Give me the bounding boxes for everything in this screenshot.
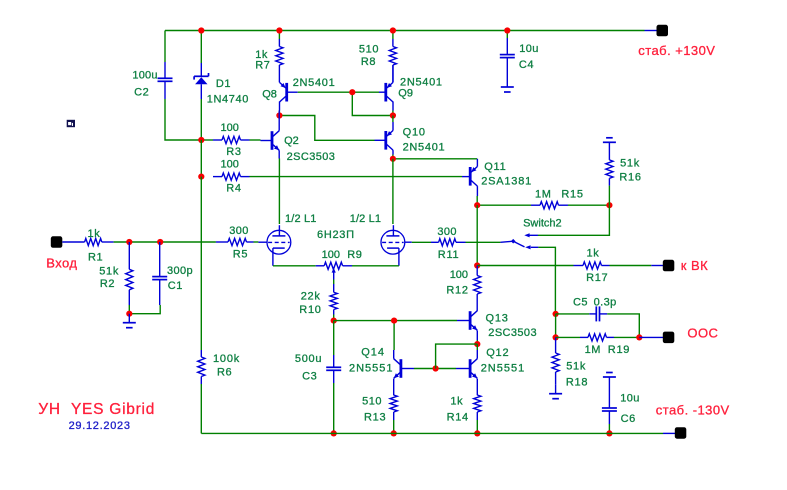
wire R17 right xyxy=(610,265,652,267)
svg-text:Q9: Q9 xyxy=(398,88,413,100)
svg-text:510: 510 xyxy=(362,396,382,408)
wire left vertical xyxy=(200,177,202,350)
label Q14 ref xyxy=(361,347,385,359)
wire Q10 collector to node xyxy=(392,116,394,123)
svg-text:Q10: Q10 xyxy=(403,126,426,138)
resistor R9 xyxy=(316,262,352,269)
label tube V1a xyxy=(285,213,316,225)
svg-text:C6: C6 xyxy=(621,413,636,425)
transistor Q10 xyxy=(386,122,393,155)
wire R6 to bottom rail xyxy=(200,384,202,433)
resistor R10 xyxy=(330,284,337,315)
svg-text:C5: C5 xyxy=(573,296,588,308)
svg-text:100k: 100k xyxy=(213,353,240,365)
capacitor C5 xyxy=(589,306,607,321)
junction Q14 collector xyxy=(391,318,397,324)
label стаб. -130V xyxy=(656,403,730,418)
label R16 value xyxy=(620,158,640,170)
wire C2 bottom xyxy=(165,99,201,140)
junction R2 top xyxy=(126,239,132,245)
resistor R1 xyxy=(62,238,113,245)
ground input xyxy=(123,314,136,328)
wire Q14 collector vertical xyxy=(393,321,395,350)
svg-text:51k: 51k xyxy=(566,360,586,372)
wire Q10 emitter to node xyxy=(392,155,394,159)
wire R19 left wire xyxy=(556,336,580,338)
svg-text:R13: R13 xyxy=(364,412,386,424)
label Q13 ref xyxy=(486,313,509,325)
svg-text:к ВК: к ВК xyxy=(681,258,708,273)
wire Q12 collector wire xyxy=(476,344,478,350)
svg-text:R6: R6 xyxy=(217,367,232,379)
wire left cathode wire xyxy=(273,265,316,267)
junction R3 node xyxy=(198,137,204,143)
svg-text:6Н23П: 6Н23П xyxy=(317,229,355,241)
capacitor C6 xyxy=(602,377,617,424)
terminal pad к ВК xyxy=(663,260,675,272)
junction C3 rail xyxy=(331,430,337,436)
wire R11 left xyxy=(412,241,431,243)
svg-text:0.3p: 0.3p xyxy=(594,296,617,308)
svg-text:510: 510 xyxy=(359,44,379,56)
label R2 ref xyxy=(100,278,115,290)
label R9 ref xyxy=(347,249,362,261)
junction rail-R7 xyxy=(276,27,282,33)
wire R5 to tube grid xyxy=(254,241,259,243)
label R18 value xyxy=(566,360,586,372)
svg-text:C1: C1 xyxy=(168,280,183,292)
wire R11 right to switch xyxy=(466,241,501,243)
wire C5 left wire xyxy=(556,313,590,315)
wire D1 bottom xyxy=(200,99,202,140)
wire Q2 emitter xyxy=(278,150,280,158)
junction C6 rail xyxy=(606,430,612,436)
wire Q8 collector xyxy=(279,102,281,111)
svg-text:1k: 1k xyxy=(450,396,463,408)
label C3 ref xyxy=(302,370,317,382)
svg-text:R1: R1 xyxy=(88,252,103,264)
junction base link xyxy=(433,365,439,371)
svg-text:100: 100 xyxy=(221,159,239,171)
svg-text:УН YES Gibrid: УН YES Gibrid xyxy=(38,401,155,418)
resistor R17 xyxy=(574,262,610,269)
wire Q14-Q12 base wire xyxy=(414,368,456,370)
transistor Q12 xyxy=(456,350,477,387)
label к ВК xyxy=(681,258,708,273)
svg-text:2N5551: 2N5551 xyxy=(349,362,394,374)
svg-text:R3: R3 xyxy=(226,146,241,158)
svg-text:1M: 1M xyxy=(535,189,551,201)
label D1 ref xyxy=(216,78,231,90)
wire Q2 emitter to tube plate xyxy=(278,159,280,225)
resistor R12 xyxy=(474,266,481,311)
label ООС xyxy=(687,325,718,340)
wire base-collector link xyxy=(436,344,478,368)
wire C4 top xyxy=(506,31,508,39)
junction rail-D1 xyxy=(198,27,204,33)
wire R4 left vert xyxy=(200,140,202,177)
label R17 ref xyxy=(586,272,608,284)
triode tube V1b xyxy=(381,225,405,266)
transistor Q2 xyxy=(261,111,280,151)
label Q11 type xyxy=(481,175,532,187)
junction R4 node xyxy=(198,174,204,180)
resistor R2 xyxy=(126,242,133,305)
label R10 ref xyxy=(299,304,321,316)
svg-text:2N5401: 2N5401 xyxy=(403,142,446,154)
zener diode D1 xyxy=(194,63,208,99)
transistor Q8 xyxy=(280,82,298,102)
label Q8 ref xyxy=(262,89,277,101)
label C6 value xyxy=(620,392,640,404)
label Q14 type xyxy=(349,362,394,374)
capacitor C4 xyxy=(500,38,515,78)
svg-text:1/2 L1: 1/2 L1 xyxy=(350,213,381,225)
label C5 xyxy=(573,296,588,308)
wire R8 top xyxy=(392,31,394,40)
svg-text:Q13: Q13 xyxy=(486,313,509,325)
terminal pad ООС xyxy=(663,332,675,344)
svg-text:10u: 10u xyxy=(620,392,640,404)
label title xyxy=(38,401,155,418)
label R12 ref xyxy=(446,285,468,297)
wire R13 bottom xyxy=(393,420,395,433)
junction R19 right xyxy=(636,334,642,340)
wire Q11 base lead xyxy=(462,176,470,178)
junction rail-C4 xyxy=(504,27,510,33)
wire C3 top xyxy=(333,321,335,355)
transistor Q14 xyxy=(394,350,414,387)
label C3 value xyxy=(295,353,322,365)
svg-text:R11: R11 xyxy=(438,249,459,261)
wire right tube plate wire xyxy=(392,159,394,224)
label R6 value xyxy=(213,353,240,365)
label R6 ref xyxy=(217,367,232,379)
label R10 value xyxy=(301,290,321,302)
wire R4 right to Q11 base xyxy=(250,176,463,178)
junction base node xyxy=(349,89,355,95)
label R11 value xyxy=(437,226,457,238)
label R14 ref xyxy=(447,412,469,424)
wire right cathode wire xyxy=(352,265,399,267)
transistor Q9 xyxy=(379,65,393,111)
wire R17 row left xyxy=(477,265,573,267)
resistor R15 xyxy=(531,202,568,209)
capacitor C1 xyxy=(152,242,167,305)
resistor R6 xyxy=(198,350,205,384)
svg-text:R7: R7 xyxy=(255,59,270,71)
wire Q13 base wire xyxy=(334,320,457,322)
terminal pad стаб. -130V xyxy=(675,427,687,439)
ground above C6 xyxy=(603,373,616,378)
svg-text:100: 100 xyxy=(322,249,340,261)
resistor R4 xyxy=(213,173,250,180)
wire C6 bottom xyxy=(608,424,610,433)
svg-text:C2: C2 xyxy=(134,87,149,99)
wire C1 bottom xyxy=(129,305,160,314)
junction Q11-R15 xyxy=(474,202,480,208)
wire к ВК pad lead xyxy=(651,265,663,267)
svg-text:1M: 1M xyxy=(585,344,601,356)
wire -130V rail xyxy=(201,432,663,434)
svg-text:R14: R14 xyxy=(447,412,469,424)
svg-text:ООС: ООС xyxy=(687,325,718,340)
label R14 value xyxy=(450,396,463,408)
wire wiper link xyxy=(333,280,335,285)
wire R15 right xyxy=(568,204,609,206)
label Q12 ref xyxy=(486,347,509,359)
junction R13 rail xyxy=(391,430,397,436)
svg-text:R5: R5 xyxy=(233,249,248,261)
label C2 ref xyxy=(134,87,149,99)
label R3 ref xyxy=(226,146,241,158)
ground below R18 xyxy=(549,385,562,399)
wire R19 right wire xyxy=(614,336,639,338)
svg-text:300: 300 xyxy=(437,226,457,238)
junction Q9-Q10 node xyxy=(390,112,396,118)
label R5 value xyxy=(229,225,249,237)
wire base wire to Q9 xyxy=(352,91,379,93)
svg-text:1k: 1k xyxy=(88,228,101,240)
wire R3 left xyxy=(201,139,213,141)
svg-text:500u: 500u xyxy=(295,353,322,365)
label Q2 ref xyxy=(284,135,299,147)
wire grid lead left tube xyxy=(258,241,267,243)
label C4 value xyxy=(519,43,539,55)
junction R14 rail xyxy=(474,430,480,436)
wire R16 bottom xyxy=(608,186,610,206)
svg-text:Вход: Вход xyxy=(46,256,77,271)
svg-text:51k: 51k xyxy=(99,266,119,278)
label R18 ref xyxy=(566,376,588,388)
wire C2 top xyxy=(164,31,166,63)
wire switch upper throw wire xyxy=(538,205,609,235)
svg-text:2SC3503: 2SC3503 xyxy=(287,151,336,163)
svg-text:10u: 10u xyxy=(519,43,539,55)
terminal pad Вход xyxy=(51,236,63,248)
label R15 value xyxy=(535,189,551,201)
svg-text:51k: 51k xyxy=(620,158,640,170)
capacitor C2 xyxy=(158,62,173,99)
label R5 ref xyxy=(233,249,248,261)
label R4 ref xyxy=(226,183,241,195)
label Q2 type xyxy=(287,151,336,163)
svg-text:Q2: Q2 xyxy=(284,135,299,147)
svg-text:2N5551: 2N5551 xyxy=(481,362,526,374)
wire base node down xyxy=(352,92,393,115)
label date xyxy=(69,420,131,432)
svg-text:1k: 1k xyxy=(587,247,600,259)
label Q9 type xyxy=(400,77,443,89)
svg-text:R8: R8 xyxy=(361,56,376,68)
label R7 ref xyxy=(255,59,270,71)
svg-text:100: 100 xyxy=(221,122,239,134)
resistor R13 xyxy=(390,387,397,420)
label D1 value xyxy=(207,93,249,105)
label R4 value xyxy=(221,159,239,171)
svg-text:R4: R4 xyxy=(226,183,241,195)
wire R7 top xyxy=(278,31,280,40)
label R19 ref xyxy=(608,344,630,356)
label Q12 type xyxy=(481,362,526,374)
resistor R11 xyxy=(431,239,466,246)
label Q9 ref xyxy=(398,88,413,100)
wire +130V pad lead xyxy=(645,30,658,32)
label C2 value xyxy=(132,69,157,81)
wire Q9 collector to node xyxy=(392,111,394,116)
label C4 ref xyxy=(519,59,534,71)
resistor R8 xyxy=(389,39,396,82)
transistor Q13 xyxy=(457,311,477,340)
junction Q13-Q12 node xyxy=(474,341,480,347)
label R12 value xyxy=(450,269,468,281)
label Q11 ref xyxy=(484,161,506,173)
svg-text:R9: R9 xyxy=(347,249,362,261)
wire grid lead right tube xyxy=(405,241,412,243)
wire D1 top xyxy=(200,31,202,64)
svg-text:29.12.2023: 29.12.2023 xyxy=(69,420,131,432)
wire R10 bottom xyxy=(333,315,335,321)
svg-text:100u: 100u xyxy=(132,69,157,81)
label R19 value xyxy=(585,344,601,356)
svg-text:R18: R18 xyxy=(566,376,588,388)
label R13 ref xyxy=(364,412,386,424)
ground above R16 xyxy=(603,138,616,143)
svg-text:R16: R16 xyxy=(619,171,641,183)
label R2 value xyxy=(99,266,119,278)
ground below C4 xyxy=(501,78,514,92)
wire +130V rail xyxy=(165,30,645,32)
label R8 ref xyxy=(361,56,376,68)
wire input wire xyxy=(114,241,216,243)
svg-text:стаб. +130V: стаб. +130V xyxy=(638,43,715,58)
label R9 value xyxy=(322,249,340,261)
wire -130V pad lead xyxy=(663,432,675,434)
wire Q13 emitter to node xyxy=(476,340,478,344)
svg-text:R19: R19 xyxy=(608,344,630,356)
terminal pad стаб. +130V xyxy=(657,25,669,37)
svg-text:300p: 300p xyxy=(167,265,193,277)
label Q10 ref xyxy=(403,126,426,138)
svg-text:стаб. -130V: стаб. -130V xyxy=(656,403,730,418)
label R11 ref xyxy=(438,249,459,261)
svg-text:Switch2: Switch2 xyxy=(523,218,562,230)
junction Q10 node xyxy=(390,156,396,162)
resistor R14 xyxy=(474,387,481,420)
potentiometer wiper R9 xyxy=(332,268,336,280)
label Вход xyxy=(46,256,77,271)
label R3 value xyxy=(221,122,239,134)
svg-text:Q14: Q14 xyxy=(361,347,385,359)
junction R10-C3 xyxy=(331,318,337,324)
transistor Q11 xyxy=(470,159,477,196)
wire C3 bottom xyxy=(333,383,335,433)
junction C5 left xyxy=(553,311,559,317)
label tube type xyxy=(317,229,355,241)
svg-text:C4: C4 xyxy=(519,59,534,71)
label R8 value xyxy=(359,44,379,56)
label Q8 type xyxy=(293,77,336,89)
label R7 value xyxy=(255,49,268,61)
svg-text:2SA1381: 2SA1381 xyxy=(481,175,532,187)
svg-text:R12: R12 xyxy=(446,285,468,297)
svg-text:100: 100 xyxy=(450,269,468,281)
label R1 ref xyxy=(88,252,103,264)
wire R15 left xyxy=(477,204,531,206)
wire Q10-Q11 emitter wire xyxy=(393,158,477,160)
label R13 value xyxy=(362,396,382,408)
resistor R3 xyxy=(213,136,250,143)
svg-text:R2: R2 xyxy=(100,278,115,290)
svg-text:1N4740: 1N4740 xyxy=(207,93,249,105)
resistor R16 xyxy=(606,142,613,185)
label Q13 type xyxy=(488,327,537,339)
wire C5-R19 vertical xyxy=(555,314,557,338)
svg-text:2SC3503: 2SC3503 xyxy=(488,327,537,339)
wire Q11-R12 vertical xyxy=(476,205,478,265)
label R1 value xyxy=(88,228,101,240)
switch Switch2 xyxy=(500,233,538,249)
svg-text:Q12: Q12 xyxy=(486,347,509,359)
annotation icon xyxy=(67,120,75,127)
junction R19 left xyxy=(553,334,559,340)
wire R14 bottom xyxy=(476,420,478,433)
junction R15-R16 xyxy=(606,202,612,208)
label C6 ref xyxy=(621,413,636,425)
label R16 ref xyxy=(619,171,641,183)
label Switch2 xyxy=(523,218,562,230)
label C5 value xyxy=(594,296,617,308)
label Q10 type xyxy=(403,142,446,154)
label C1 ref xyxy=(168,280,183,292)
capacitor C3 xyxy=(326,355,341,383)
svg-text:Q8: Q8 xyxy=(262,89,277,101)
svg-text:D1: D1 xyxy=(216,78,231,90)
label C1 value xyxy=(167,265,193,277)
svg-text:Q11: Q11 xyxy=(484,161,506,173)
wire Q10 base lead xyxy=(375,139,386,141)
resistor R7 xyxy=(276,39,283,82)
svg-text:1/2 L1: 1/2 L1 xyxy=(285,213,316,225)
label R15 ref xyxy=(561,189,583,201)
wire R2 bottom xyxy=(128,305,130,314)
resistor R18 xyxy=(552,337,559,384)
svg-text:300: 300 xyxy=(229,225,249,237)
svg-text:R15: R15 xyxy=(561,189,583,201)
svg-text:R10: R10 xyxy=(299,304,321,316)
svg-text:22k: 22k xyxy=(301,290,321,302)
svg-text:C3: C3 xyxy=(302,370,317,382)
junction R12 top xyxy=(474,262,480,268)
svg-text:R17: R17 xyxy=(586,272,608,284)
wire ООС pad lead xyxy=(639,336,663,338)
junction Q8-Q2 node xyxy=(276,112,282,118)
junction C1 top xyxy=(157,239,163,245)
junction ground node xyxy=(126,311,132,317)
triode tube V1a xyxy=(267,225,291,266)
resistor R5 xyxy=(216,238,254,245)
junction rail-R8 xyxy=(390,27,396,33)
label стаб. +130V xyxy=(638,43,715,58)
wire C5 right wire xyxy=(607,314,639,338)
wire Q8 collector to node xyxy=(278,111,280,116)
resistor R19 xyxy=(580,334,614,341)
wire switch lower throw wire xyxy=(538,247,555,314)
wire node A wire xyxy=(279,116,374,141)
wire R3 right xyxy=(250,139,261,141)
wire Q11 collector to node xyxy=(476,196,478,205)
label R17 value xyxy=(587,247,600,259)
